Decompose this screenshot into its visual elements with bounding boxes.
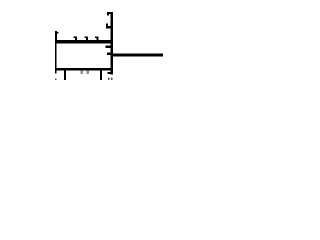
mid tab on web <box>105 45 110 48</box>
left stub below bottom flange <box>55 70 57 80</box>
web bottom hook <box>107 72 110 74</box>
tooth 1 <box>74 37 77 42</box>
left foot leg <box>64 70 66 80</box>
junction nub <box>107 53 111 55</box>
top channel lower stub <box>106 24 113 29</box>
small marks under web <box>108 77 113 80</box>
profile left wall <box>55 43 57 70</box>
middle faint stubs <box>81 70 90 73</box>
right foot leg <box>100 70 102 80</box>
top channel upper stub <box>107 12 113 15</box>
tooth 2 <box>85 37 88 42</box>
profile left lip <box>55 31 59 43</box>
profile top flange bar <box>55 40 113 43</box>
profile right vertical web <box>111 12 113 75</box>
profile bottom flange bar <box>55 68 113 70</box>
long panel line <box>112 54 163 57</box>
tooth 3 <box>95 37 98 42</box>
